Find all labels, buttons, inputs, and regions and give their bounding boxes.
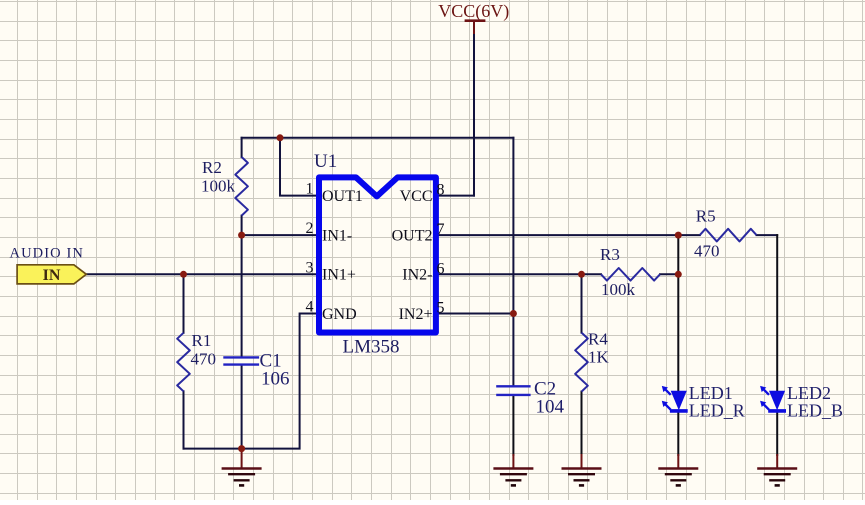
wire R2 bottom to C1: [241, 216, 243, 358]
wire LED1 cathode: [677, 411, 679, 455]
resistor R3 zigzag: [601, 268, 660, 281]
svg-text:U1: U1: [314, 151, 337, 172]
svg-text:1: 1: [306, 181, 314, 198]
wire C1 bottom lead: [241, 365, 243, 449]
resistor R1 zigzag: [177, 333, 190, 392]
ground GND under C2: [493, 454, 533, 485]
svg-text:R1: R1: [192, 331, 212, 350]
junction A: [277, 134, 284, 141]
junction F: [578, 271, 585, 278]
wire R5 right lead: [757, 234, 778, 236]
svg-text:GND: GND: [322, 306, 357, 323]
wire LED2 cathode: [776, 411, 778, 455]
wire R3 right lead: [660, 273, 678, 275]
svg-text:104: 104: [536, 396, 565, 417]
svg-text:LED_R: LED_R: [689, 401, 745, 421]
wire bottom to GND pin: [184, 314, 319, 449]
ground GND under LED1: [658, 454, 698, 485]
wire IN2- row to R3: [437, 273, 601, 275]
svg-text:1K: 1K: [588, 347, 610, 366]
svg-text:4: 4: [306, 299, 314, 316]
svg-text:LM358: LM358: [343, 337, 400, 358]
junction E: [510, 310, 517, 317]
svg-text:OUT2: OUT2: [392, 228, 433, 245]
wire to C2 top: [512, 314, 514, 387]
wire R2 top lead: [241, 138, 243, 157]
wire OUT2 row: [437, 234, 678, 236]
LED LED1 (LED_R): [662, 386, 688, 411]
svg-text:8: 8: [437, 182, 445, 199]
wire VCC drop: [473, 34, 475, 196]
wire IN1- row: [242, 234, 318, 236]
junction H: [675, 271, 682, 278]
svg-text:R2: R2: [202, 158, 222, 177]
svg-text:IN1-: IN1-: [322, 228, 352, 245]
wire IN1+ row from port: [86, 273, 318, 275]
wire LED1 anode: [677, 235, 679, 391]
svg-text:3: 3: [306, 259, 314, 276]
svg-text:IN2-: IN2-: [402, 267, 432, 284]
junction D: [238, 445, 245, 452]
svg-text:VCC: VCC: [400, 188, 433, 205]
svg-text:AUDIO IN: AUDIO IN: [10, 246, 84, 262]
junction C: [180, 271, 187, 278]
svg-text:5: 5: [437, 300, 445, 317]
ground GND under C1: [222, 449, 262, 485]
junction B: [238, 232, 245, 239]
wire LED2 anode: [776, 235, 778, 391]
svg-text:LED_B: LED_B: [787, 401, 843, 421]
svg-text:IN2+: IN2+: [399, 306, 433, 323]
svg-text:R4: R4: [588, 329, 608, 348]
svg-text:IN1+: IN1+: [322, 267, 356, 284]
svg-text:100k: 100k: [201, 176, 236, 195]
ground GND under LED2: [757, 454, 797, 485]
wire pin8 VCC stub: [437, 195, 474, 197]
svg-text:R3: R3: [600, 245, 620, 264]
wire OUT1 to feedback: [280, 138, 318, 196]
resistor R5 zigzag: [700, 229, 757, 242]
capacitor C1 plates: [223, 357, 259, 364]
svg-text:OUT1: OUT1: [322, 188, 363, 205]
port IN (AUDIO IN): [17, 265, 86, 284]
svg-text:R5: R5: [696, 207, 716, 226]
power VCC bar: [465, 21, 486, 34]
svg-text:106: 106: [261, 368, 290, 389]
svg-text:7: 7: [437, 221, 445, 238]
svg-text:100k: 100k: [601, 280, 636, 299]
resistor R4 zigzag: [575, 333, 588, 392]
svg-text:470: 470: [191, 349, 217, 368]
wire R1 top lead: [183, 274, 185, 333]
svg-text:6: 6: [437, 260, 445, 277]
wire R1 bottom lead: [183, 391, 185, 448]
wire R4 bottom lead: [581, 392, 583, 455]
wire feedback drop to IN2+: [512, 138, 514, 314]
wire C2 bottom lead: [512, 395, 514, 455]
svg-text:470: 470: [694, 241, 720, 260]
svg-text:IN: IN: [43, 267, 61, 284]
wire R4 top lead: [581, 274, 583, 332]
LED LED2 (LED_B): [760, 386, 786, 411]
op-amp U1 LM358 body: [319, 177, 436, 332]
svg-text:2: 2: [306, 220, 314, 237]
wire IN2+ stub: [437, 313, 513, 315]
svg-text:VCC(6V): VCC(6V): [438, 1, 509, 22]
ground GND under R4: [562, 454, 602, 485]
wire OUT1 feedback top: [242, 137, 514, 139]
junction G: [675, 232, 682, 239]
wire R5 left lead: [678, 234, 700, 236]
resistor R2 zigzag: [235, 157, 248, 216]
capacitor C2 plates: [496, 386, 530, 395]
